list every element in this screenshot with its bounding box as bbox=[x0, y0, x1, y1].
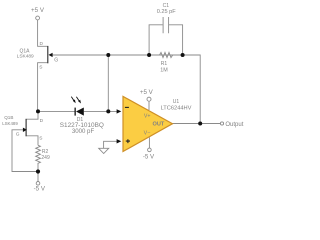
svg-text:-5 V: -5 V bbox=[34, 186, 46, 193]
svg-text:U1: U1 bbox=[173, 99, 180, 105]
svg-text:+5 V: +5 V bbox=[31, 7, 45, 14]
svg-text:V+: V+ bbox=[144, 114, 151, 120]
svg-text:R1: R1 bbox=[161, 61, 168, 67]
svg-text:+5 V: +5 V bbox=[140, 89, 154, 96]
svg-text:G: G bbox=[16, 131, 20, 137]
svg-text:LSK489: LSK489 bbox=[17, 54, 34, 60]
svg-text:S: S bbox=[39, 65, 42, 71]
svg-text:OUT: OUT bbox=[152, 122, 164, 128]
svg-text:V−: V− bbox=[144, 130, 151, 136]
svg-text:-5 V: -5 V bbox=[143, 153, 155, 160]
svg-text:Q1B: Q1B bbox=[4, 115, 13, 120]
svg-text:G: G bbox=[54, 57, 58, 63]
svg-text:S: S bbox=[39, 135, 42, 141]
svg-text:Output: Output bbox=[225, 122, 243, 128]
svg-text:3000 pF: 3000 pF bbox=[72, 128, 95, 135]
svg-text:D: D bbox=[40, 41, 44, 47]
svg-text:1M: 1M bbox=[160, 67, 168, 73]
svg-text:D: D bbox=[40, 118, 44, 124]
svg-text:LTC6244HV: LTC6244HV bbox=[161, 105, 192, 111]
svg-text:0.25 pF: 0.25 pF bbox=[157, 9, 177, 15]
svg-text:LSK489: LSK489 bbox=[2, 121, 18, 126]
svg-text:249: 249 bbox=[41, 155, 50, 161]
